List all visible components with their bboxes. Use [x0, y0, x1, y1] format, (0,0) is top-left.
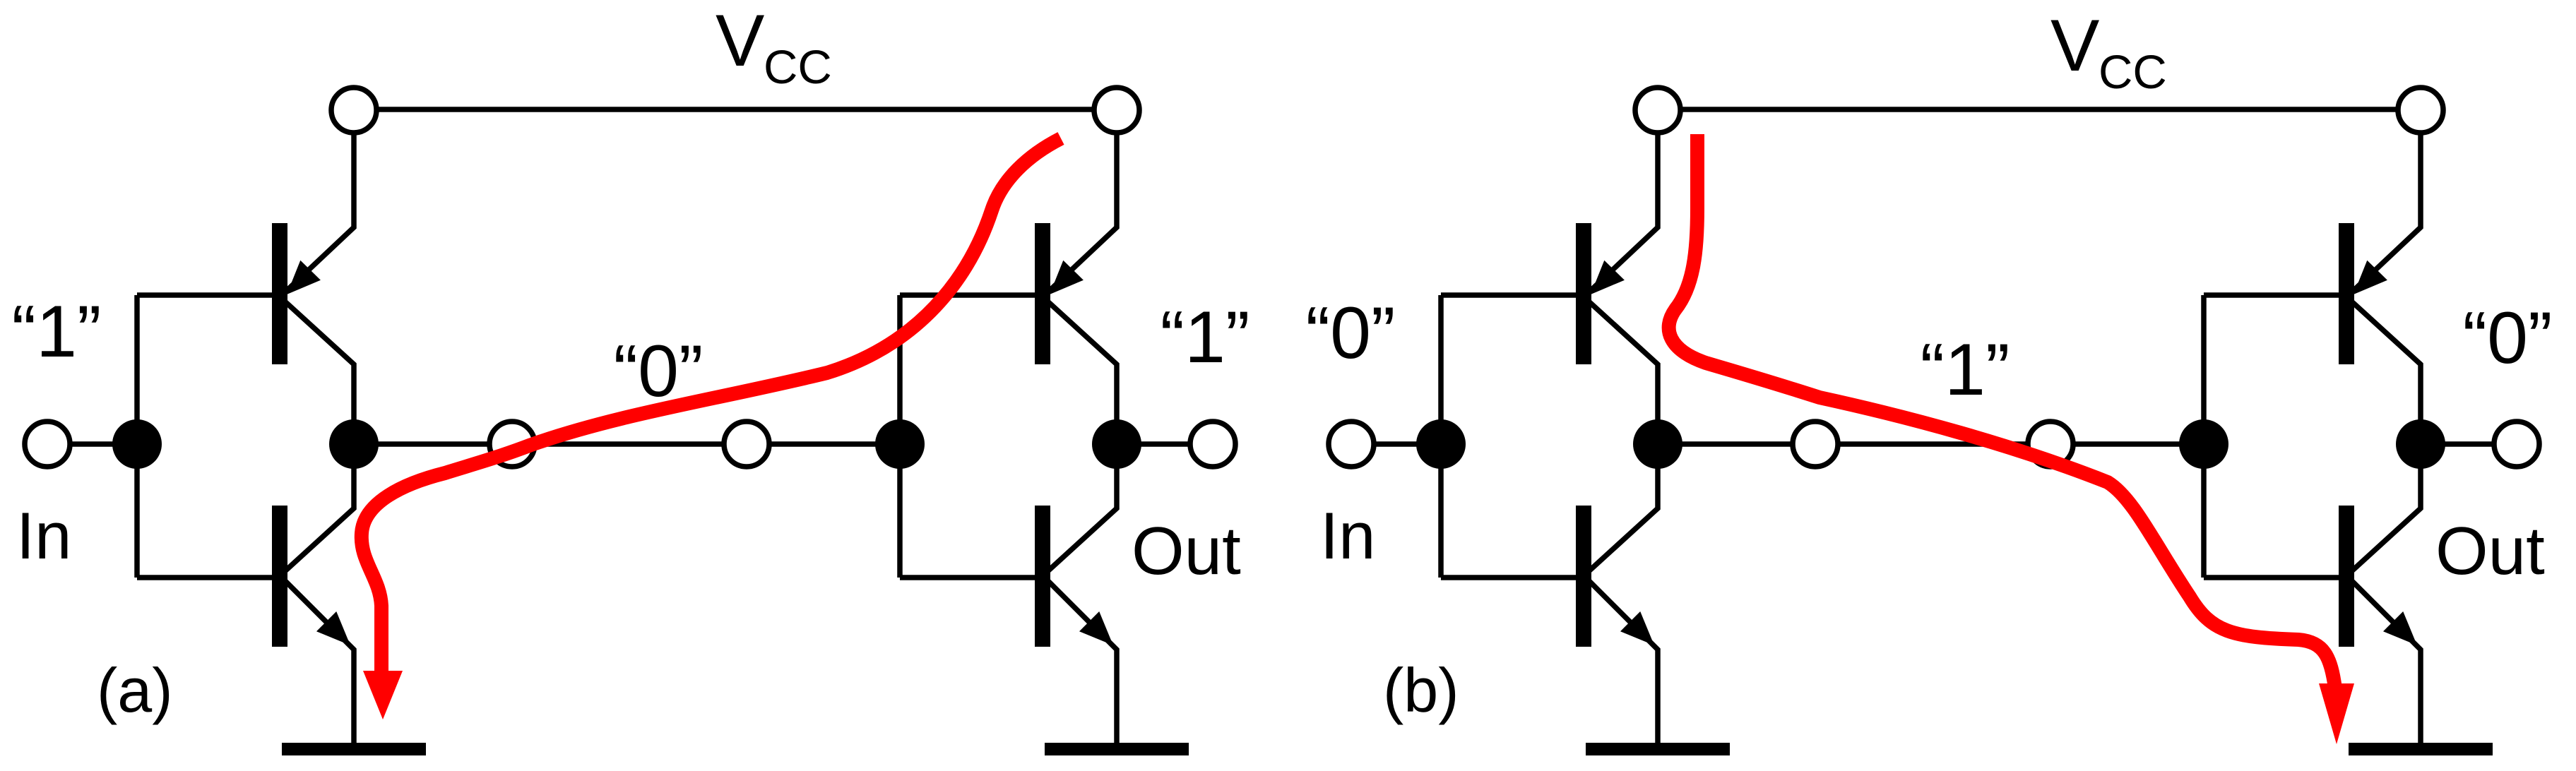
svg-text:“1”: “1”	[11, 291, 101, 373]
svg-text:“1”: “1”	[1920, 329, 2010, 411]
svg-text:“0”: “0”	[2462, 297, 2552, 379]
svg-text:“1”: “1”	[1160, 297, 1250, 378]
svg-text:CC: CC	[2099, 46, 2167, 99]
svg-text:Out: Out	[2435, 513, 2545, 589]
svg-text:(a): (a)	[97, 655, 173, 725]
svg-text:V: V	[2050, 5, 2099, 87]
svg-text:“0”: “0”	[1305, 292, 1395, 374]
svg-text:V: V	[716, 0, 764, 82]
svg-text:In: In	[16, 498, 71, 573]
svg-text:(b): (b)	[1383, 655, 1459, 725]
svg-text:Out: Out	[1132, 513, 1241, 589]
svg-text:“0”: “0”	[613, 330, 703, 412]
svg-text:CC: CC	[764, 41, 832, 94]
svg-text:In: In	[1320, 498, 1375, 573]
